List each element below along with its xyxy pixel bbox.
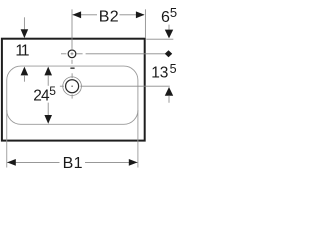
- dimension 11 down arrow tail: [23, 17, 25, 30]
- tap hole crosshair vertical below: [71, 60, 73, 64]
- drain center line extension right: [80, 85, 169, 87]
- tap hole crosshair horizontal left: [61, 53, 66, 55]
- 6.5 down arrowhead: [165, 30, 173, 39]
- drain hole circle: [66, 80, 79, 93]
- tap hole center cross ticks: [71, 53, 74, 55]
- 13.5 up arrowhead: [165, 87, 173, 96]
- drain crosshair vertical above: [71, 73, 73, 78]
- dimension B1 right arrowhead: [129, 159, 138, 166]
- rear edge extension line right: [146, 38, 173, 40]
- inner bowl outline: [7, 66, 138, 124]
- svg-text:5: 5: [170, 5, 177, 20]
- dimension 24.5 up arrowhead: [44, 67, 52, 76]
- svg-text:B2: B2: [99, 9, 119, 26]
- dimension 11 down arrowhead: [21, 29, 29, 38]
- drain center dot: [71, 86, 72, 87]
- dimension B2 right arrowhead: [136, 11, 145, 18]
- svg-text:13: 13: [151, 65, 168, 82]
- drain crosshair vertical below: [71, 94, 73, 98]
- dimension B1 line left segment: [7, 161, 59, 163]
- 13.5 arrow tail: [168, 95, 170, 102]
- 6.5 arrow tail: [168, 25, 170, 30]
- dimension 11 up arrowhead: [21, 67, 29, 76]
- svg-text:1: 1: [21, 43, 30, 60]
- dimension B1 left arrowhead: [7, 159, 16, 166]
- dimension 11 up arrow tail: [23, 75, 25, 82]
- svg-text:B1: B1: [63, 155, 83, 172]
- dimension B2 left arrowhead: [72, 11, 81, 18]
- tap hole center line extension right: [77, 53, 83, 55]
- drain crosshair horizontal left: [60, 85, 64, 87]
- B1 left extension line (bowl edge extended): [6, 110, 8, 168]
- B1 right extension line (bowl edge extended): [137, 110, 139, 168]
- dimension B2 line right segment: [120, 14, 145, 16]
- dimension B2 line left segment: [72, 14, 97, 16]
- overflow slot: [70, 67, 74, 69]
- washbasin outer rim (thick outline): [2, 39, 145, 141]
- dimension B1 line right segment: [85, 161, 138, 163]
- svg-text:5: 5: [49, 84, 56, 98]
- dimension 24.5 upper tail: [47, 75, 49, 86]
- dimension 24.5 down arrowhead: [44, 115, 52, 124]
- dimension 24.5 lower tail: [47, 103, 49, 116]
- tap hole center vertical extension line: [71, 9, 73, 49]
- B2 right extension line: [144, 9, 146, 38]
- tap hole center line long extension right: [86, 53, 172, 55]
- svg-text:24: 24: [33, 88, 50, 105]
- drain outer circle: [63, 77, 82, 96]
- svg-text:6: 6: [161, 9, 170, 26]
- chain diamond at tap centerline: [165, 50, 172, 57]
- tap hole circle: [68, 50, 76, 58]
- svg-text:5: 5: [170, 62, 177, 76]
